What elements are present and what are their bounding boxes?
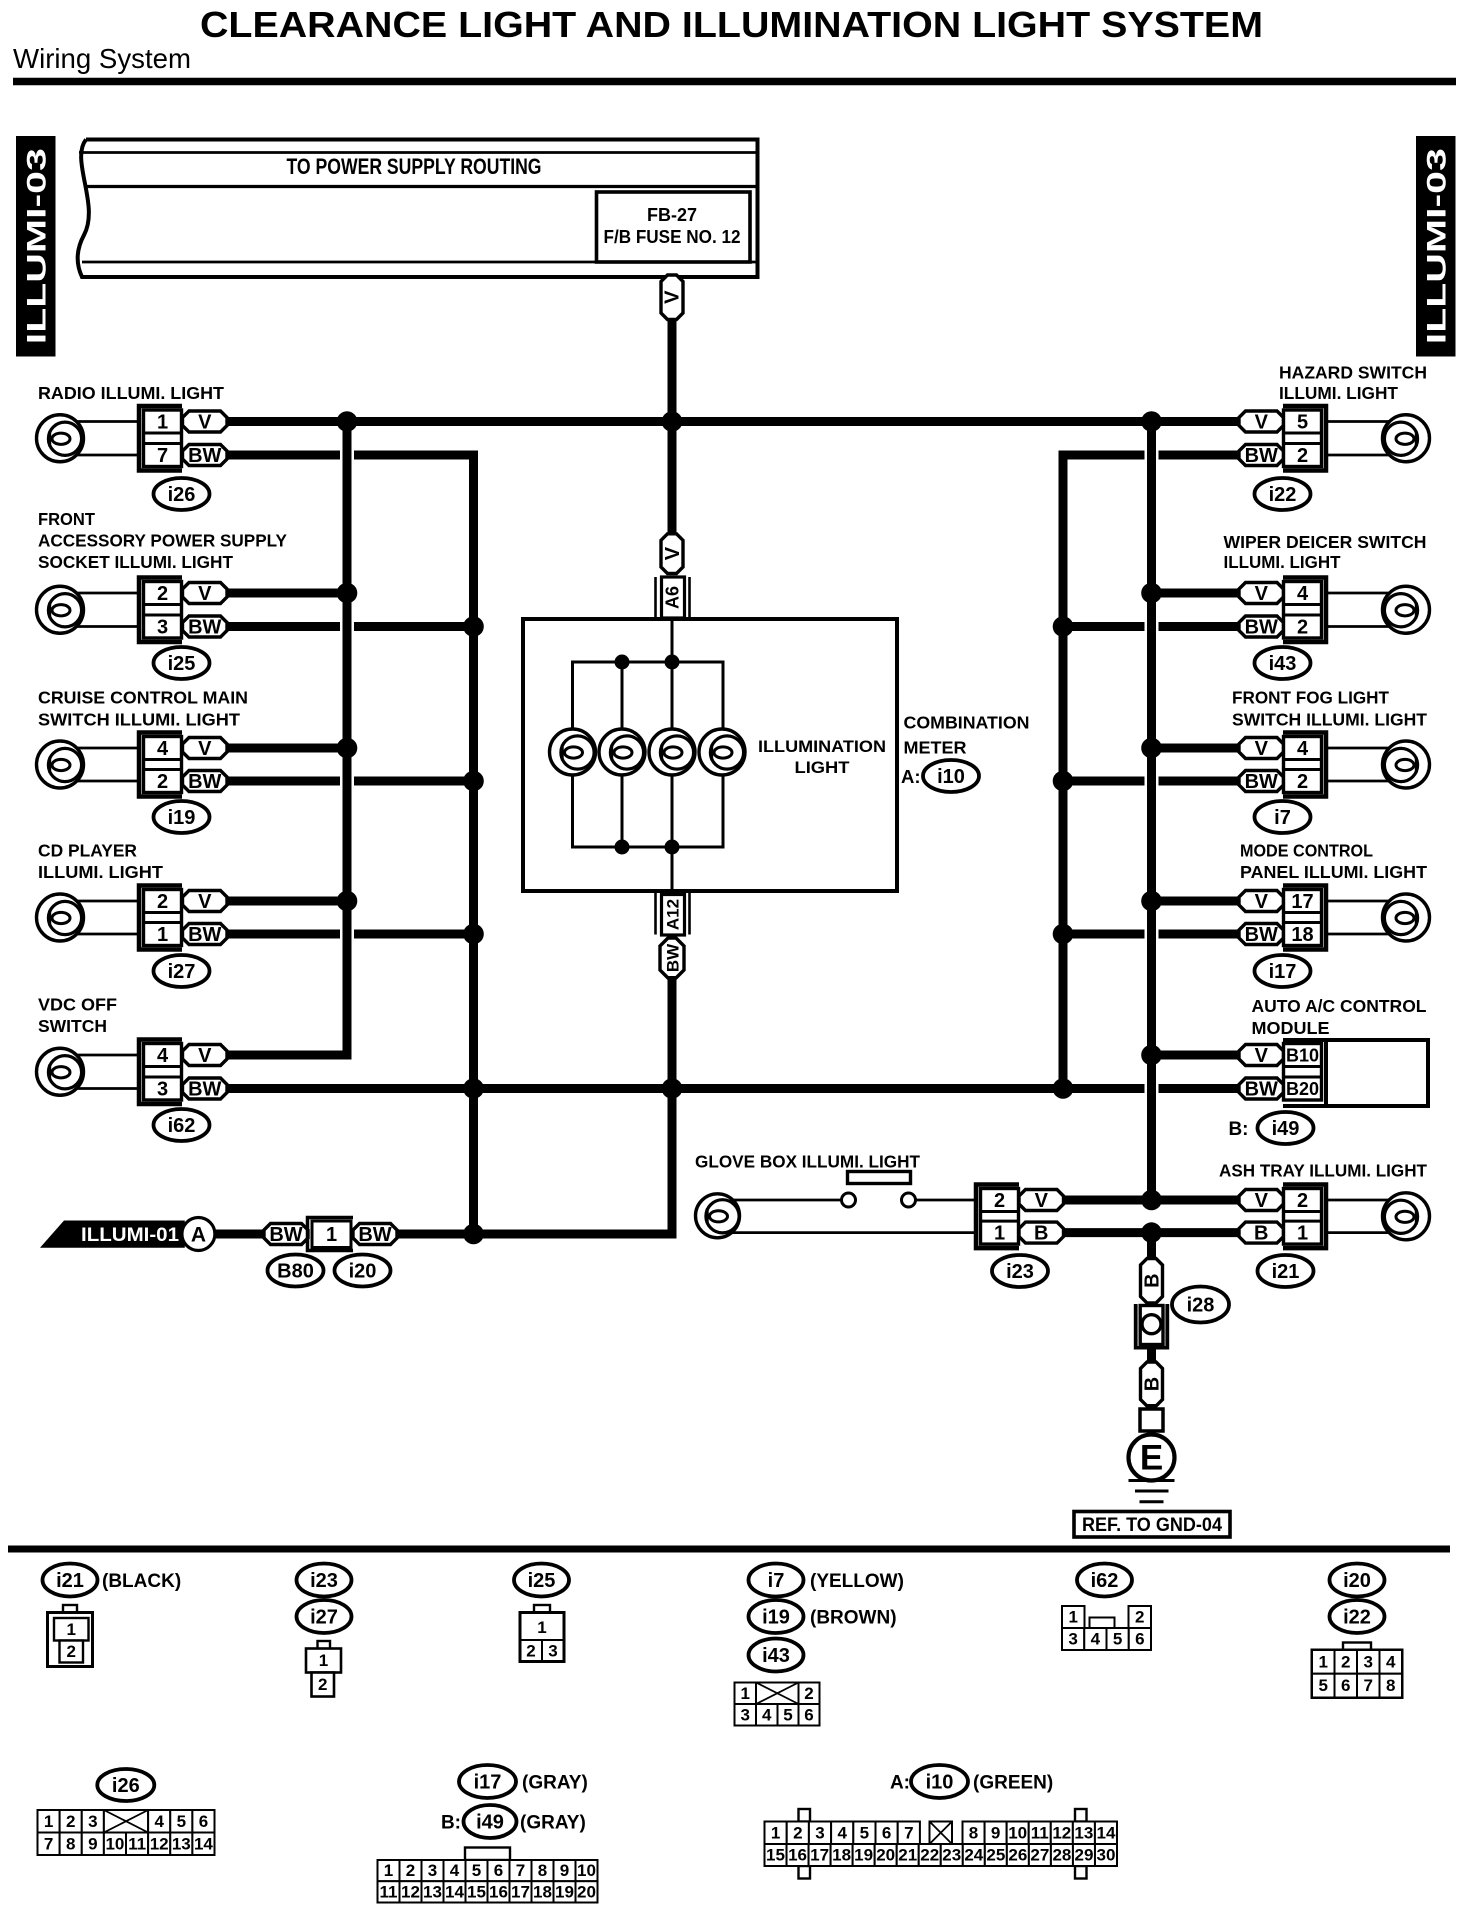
- svg-text:RADIO ILLUMI. LIGHT: RADIO ILLUMI. LIGHT: [38, 383, 224, 403]
- label COMBINATION METER: [904, 713, 1030, 758]
- label (YELLOW): [810, 1571, 904, 1592]
- svg-text:i20: i20: [349, 1261, 377, 1283]
- svg-text:2: 2: [67, 1642, 76, 1661]
- connector designator A: i10 (pinout): [890, 1765, 968, 1798]
- wire: left V bus: [343, 417, 352, 1060]
- illumination bulb 1: [550, 729, 596, 775]
- svg-text:FRONT FOG LIGHT: FRONT FOG LIGHT: [1232, 688, 1389, 708]
- svg-text:8: 8: [969, 1823, 978, 1842]
- wire: vdc V to left V bus corner: [227, 1051, 352, 1060]
- junction dot mode control V / right V bus: [1141, 891, 1162, 912]
- svg-text:13: 13: [172, 1834, 191, 1853]
- power supply routing box: [78, 140, 758, 278]
- svg-text:1: 1: [771, 1823, 780, 1842]
- bulb: cruise control main switch illumi. light: [37, 741, 84, 788]
- connector i49 pinout drawing: [378, 1848, 598, 1903]
- junction dot long BW row / center BW: [662, 1078, 683, 1099]
- svg-text:(YELLOW): (YELLOW): [810, 1571, 904, 1592]
- svg-text:4: 4: [762, 1705, 772, 1724]
- svg-text:10: 10: [105, 1834, 124, 1853]
- wire: bulb to connector i62: [76, 1055, 139, 1089]
- svg-text:8: 8: [538, 1861, 547, 1880]
- svg-text:18: 18: [1291, 924, 1313, 946]
- connector i7 pins 4/2: [1283, 733, 1326, 797]
- wire color B (i21 pin 1): [1239, 1222, 1284, 1245]
- svg-text:5: 5: [1319, 1676, 1328, 1695]
- connector i22 pins 5/2: [1283, 406, 1326, 471]
- illumination bulb 2: [599, 729, 645, 775]
- connector i62 pins 4/3: [139, 1040, 182, 1105]
- wire color V (i23 pin 2): [1019, 1190, 1064, 1213]
- svg-text:V: V: [1255, 412, 1269, 434]
- svg-text:V: V: [198, 1045, 212, 1067]
- connector designator i23: [992, 1255, 1048, 1287]
- wire color BW (i62 pin 3): [183, 1078, 228, 1101]
- wire: wiper deicer BW from right BW bus (break at V bus): [1063, 622, 1239, 631]
- connector designator i20: [335, 1255, 391, 1287]
- bulb: cd player illumi. light: [37, 894, 84, 941]
- wire color BW (i20 side): [353, 1224, 397, 1247]
- svg-text:MODULE: MODULE: [1252, 1018, 1330, 1038]
- svg-text:B: B: [1254, 1223, 1268, 1245]
- label: ASH TRAY ILLUMI. LIGHT: [1219, 1161, 1427, 1181]
- wire: mode control V from right V bus: [1152, 897, 1240, 906]
- connector i19 pins 4/2: [139, 733, 182, 797]
- wire: connector i43 to bulb: [1328, 593, 1391, 627]
- svg-text:A:: A:: [890, 1773, 910, 1794]
- wire: cruise BW to left BW bus (break at V bus): [227, 777, 474, 786]
- connector i26 pins 1/7: [139, 406, 182, 471]
- svg-text:i26: i26: [112, 1775, 140, 1797]
- svg-text:B10: B10: [1286, 1046, 1319, 1066]
- svg-text:11: 11: [1031, 1823, 1049, 1842]
- wire color V (i62 pin 4): [183, 1045, 228, 1068]
- svg-text:ILLUMI. LIGHT: ILLUMI. LIGHT: [1224, 552, 1341, 572]
- connector i17 pins 17/18: [1283, 886, 1326, 950]
- wire: bulb to connector i27: [76, 901, 139, 934]
- wire: cd V to left V bus: [227, 897, 347, 906]
- svg-text:16: 16: [788, 1846, 807, 1865]
- bulb: mode control panel illumi. light: [1383, 894, 1430, 941]
- wire color BW (i7 pin 2): [1239, 771, 1284, 794]
- junction dot accessory BW / left BW bus: [463, 616, 484, 637]
- wire color V (i7 pin 4): [1239, 738, 1284, 761]
- label: AUTO A/C CONTROL MODULE: [1252, 996, 1427, 1038]
- svg-text:V: V: [1255, 1045, 1269, 1067]
- wire color BW (below A12): [660, 938, 684, 978]
- svg-text:V: V: [1035, 1190, 1049, 1212]
- connector i23/i27 pinout drawing: [306, 1641, 341, 1697]
- svg-text:17: 17: [511, 1882, 530, 1901]
- svg-text:18: 18: [533, 1882, 552, 1901]
- svg-text:18: 18: [832, 1846, 851, 1865]
- wire: glove bulb to door switch: [732, 1199, 841, 1202]
- svg-text:8: 8: [1386, 1676, 1395, 1695]
- svg-text:1: 1: [157, 412, 168, 434]
- svg-text:COMBINATION: COMBINATION: [904, 713, 1030, 733]
- connector i25 pins 2/3: [139, 578, 182, 643]
- junction dot accessory V / left V bus: [337, 583, 358, 604]
- svg-text:BW: BW: [269, 1224, 302, 1246]
- svg-text:B: B: [1142, 1377, 1164, 1391]
- wire color BW (i19 pin 2): [183, 771, 228, 794]
- label ILLUMINATION LIGHT: [758, 737, 886, 777]
- svg-text:BW: BW: [188, 924, 221, 946]
- svg-text:4: 4: [837, 1823, 847, 1842]
- title: CLEARANCE LIGHT AND ILLUMINATION LIGHT SYSTEM: [200, 4, 1263, 45]
- svg-text:9: 9: [560, 1861, 569, 1880]
- junction dot ash B row / ground branch: [1141, 1222, 1162, 1243]
- connector designator B: i49: [1228, 1112, 1313, 1144]
- svg-text:4: 4: [157, 738, 169, 760]
- svg-text:10: 10: [1008, 1823, 1027, 1842]
- svg-text:B:: B:: [1228, 1119, 1248, 1140]
- connector i21 pins 2/1: [1283, 1185, 1326, 1249]
- svg-text:2: 2: [804, 1684, 813, 1703]
- svg-text:21: 21: [898, 1846, 917, 1865]
- svg-text:(BROWN): (BROWN): [810, 1608, 897, 1629]
- bulb: hazard switch illumi. light: [1383, 415, 1430, 462]
- page tab ILLUMI-03 (right): [1416, 136, 1456, 357]
- svg-text:29: 29: [1074, 1846, 1093, 1865]
- junction dot ILLUMI-01 row / left BW bus: [463, 1224, 484, 1245]
- wire color BW (i27 pin 1): [183, 924, 228, 947]
- svg-text:14: 14: [194, 1834, 213, 1853]
- svg-text:6: 6: [1341, 1676, 1350, 1695]
- svg-text:PANEL ILLUMI. LIGHT: PANEL ILLUMI. LIGHT: [1240, 862, 1427, 882]
- wire: bulb to connector i19: [76, 748, 139, 781]
- svg-text:16: 16: [489, 1882, 508, 1901]
- svg-text:SWITCH: SWITCH: [38, 1016, 107, 1036]
- svg-text:1: 1: [319, 1651, 328, 1670]
- connector designator i27: [154, 955, 210, 987]
- wire color V (i19 pin 4): [183, 738, 228, 761]
- svg-text:B80: B80: [277, 1261, 314, 1283]
- net flag ILLUMI-01: [40, 1221, 185, 1248]
- svg-text:i25: i25: [528, 1570, 556, 1592]
- svg-text:25: 25: [986, 1846, 1005, 1865]
- svg-text:BW: BW: [1245, 617, 1278, 639]
- svg-text:i19: i19: [762, 1607, 790, 1629]
- svg-text:5: 5: [783, 1705, 792, 1724]
- svg-text:ILLUMI. LIGHT: ILLUMI. LIGHT: [38, 862, 163, 882]
- bulb: vdc off switch: [37, 1048, 84, 1095]
- wire: bulb branch 2: [621, 662, 624, 847]
- wire color V (i49 pin B10): [1239, 1045, 1284, 1068]
- junction dot top V row / right V bus: [1141, 411, 1162, 432]
- label: FRONT FOG LIGHT SWITCH ILLUMI. LIGHT: [1232, 688, 1427, 730]
- connector designator i19: [154, 801, 210, 833]
- svg-text:4: 4: [1297, 583, 1309, 605]
- svg-text:1: 1: [1069, 1608, 1078, 1627]
- svg-text:SWITCH ILLUMI. LIGHT: SWITCH ILLUMI. LIGHT: [38, 710, 240, 730]
- glove box door switch: [842, 1172, 916, 1208]
- svg-text:3: 3: [1068, 1630, 1077, 1649]
- connector i20/i22 pinout drawing: [1312, 1643, 1402, 1698]
- wire color V (i22 pin 5): [1239, 411, 1284, 434]
- svg-text:ACCESSORY POWER SUPPLY: ACCESSORY POWER SUPPLY: [38, 531, 287, 551]
- svg-text:2: 2: [157, 891, 168, 913]
- svg-text:i49: i49: [1272, 1118, 1300, 1140]
- junction dot top V row / center feed: [662, 411, 683, 432]
- svg-text:i49: i49: [476, 1812, 504, 1834]
- svg-text:5: 5: [1297, 412, 1308, 434]
- wire color BW (i43 pin 2): [1239, 616, 1284, 639]
- wire: bulb frame to connector A12: [671, 847, 674, 891]
- bulb: front accessory power supply socket illumi. light: [37, 586, 84, 633]
- connector designator i26: [154, 478, 210, 510]
- svg-text:7: 7: [516, 1861, 525, 1880]
- ground terminal block: [1140, 1409, 1163, 1431]
- svg-text:3: 3: [1364, 1653, 1373, 1672]
- connector i49 pins B10/B20: [1284, 1044, 1322, 1101]
- svg-text:1: 1: [157, 924, 168, 946]
- svg-text:E: E: [1140, 1439, 1163, 1478]
- svg-text:2: 2: [1297, 771, 1308, 793]
- svg-text:27: 27: [1030, 1846, 1049, 1865]
- wire: connector i17 to bulb: [1328, 901, 1391, 934]
- junction dot wiper deicer BW / right BW bus: [1053, 616, 1074, 637]
- auto A/C control module box: [1283, 1040, 1428, 1106]
- connector i28: [1134, 1304, 1169, 1350]
- label: RADIO ILLUMI. LIGHT: [38, 383, 224, 403]
- wire: center V feed down to top V row and to connector A6: [668, 321, 677, 534]
- svg-text:6: 6: [494, 1861, 503, 1880]
- page tab ILLUMI-03 (left): [16, 136, 56, 357]
- svg-text:V: V: [198, 738, 212, 760]
- svg-text:i43: i43: [762, 1645, 790, 1667]
- wire color V (i25 pin 2): [183, 583, 228, 606]
- svg-text:(GREEN): (GREEN): [973, 1773, 1053, 1794]
- svg-text:1: 1: [1319, 1653, 1328, 1672]
- connector designator i26 (pinout): [97, 1769, 154, 1801]
- svg-text:CLEARANCE LIGHT AND ILLUMINATI: CLEARANCE LIGHT AND ILLUMINATION LIGHT S…: [200, 4, 1263, 45]
- svg-text:26: 26: [1008, 1846, 1027, 1865]
- svg-text:SOCKET ILLUMI. LIGHT: SOCKET ILLUMI. LIGHT: [38, 552, 233, 572]
- svg-text:7: 7: [1364, 1676, 1373, 1695]
- svg-text:i21: i21: [1272, 1261, 1300, 1283]
- svg-text:CD PLAYER: CD PLAYER: [38, 841, 137, 861]
- svg-text:FRONT: FRONT: [38, 509, 95, 529]
- svg-text:11: 11: [380, 1882, 398, 1901]
- svg-text:BW: BW: [188, 617, 221, 639]
- svg-text:20: 20: [876, 1846, 895, 1865]
- junction dot ash V row / right V bus: [1141, 1190, 1162, 1211]
- svg-text:BW: BW: [1245, 771, 1278, 793]
- svg-text:5: 5: [177, 1812, 186, 1831]
- svg-text:3: 3: [428, 1861, 437, 1880]
- svg-text:1: 1: [44, 1812, 53, 1831]
- connector designator i22 (pinout): [1330, 1600, 1385, 1633]
- label: CRUISE CONTROL MAIN SWITCH ILLUMI. LIGHT: [38, 688, 248, 730]
- wire: long BW row (vdc BW to auto A/C BW): [227, 1084, 1239, 1093]
- header rule: [13, 78, 1456, 86]
- label: MODE CONTROL PANEL ILLUMI. LIGHT: [1240, 841, 1427, 883]
- wire: i28 to B label: [1147, 1347, 1156, 1364]
- wire: auto A/C V from right V bus: [1152, 1051, 1240, 1060]
- svg-text:1: 1: [741, 1684, 750, 1703]
- svg-text:28: 28: [1052, 1846, 1071, 1865]
- svg-text:2: 2: [1341, 1653, 1350, 1672]
- svg-text:19: 19: [854, 1846, 873, 1865]
- svg-text:11: 11: [128, 1834, 146, 1853]
- svg-text:12: 12: [1052, 1823, 1071, 1842]
- wire: hazard BW to right BW bus corner (break at V bus): [1059, 451, 1240, 460]
- junction dot front fog V / right V bus: [1141, 738, 1162, 759]
- wire: bulb branch 3: [671, 662, 674, 847]
- svg-text:AUTO A/C CONTROL: AUTO A/C CONTROL: [1252, 996, 1427, 1016]
- svg-text:3: 3: [157, 617, 168, 639]
- svg-text:2: 2: [1297, 1190, 1308, 1212]
- node A (ILLUMI-01 continuation): [182, 1218, 215, 1251]
- wire: right V bus: [1147, 417, 1156, 1200]
- inline connector B80/i20 pin 1: [308, 1218, 354, 1251]
- svg-text:ILLUMI-03: ILLUMI-03: [22, 148, 52, 344]
- connector designator i7: [1255, 801, 1311, 833]
- svg-text:12: 12: [401, 1882, 420, 1901]
- wire: accessory BW to left BW bus (break at V bus): [227, 622, 474, 631]
- connector designator i43 (pinout): [749, 1639, 804, 1672]
- svg-text:2: 2: [406, 1861, 415, 1880]
- wire: front fog BW from right BW bus (break at V bus): [1063, 777, 1239, 786]
- connector designator B80: [268, 1255, 324, 1287]
- illumination bulb 3: [649, 729, 695, 775]
- svg-text:7: 7: [157, 445, 168, 467]
- wire: meter feed A6 to bulb frame: [671, 619, 674, 662]
- svg-text:2: 2: [157, 771, 168, 793]
- svg-text:i27: i27: [168, 961, 196, 983]
- connector designator i23 (pinout): [297, 1564, 352, 1597]
- label (GRAY) for i49: [520, 1813, 586, 1834]
- svg-text:WIPER DEICER SWITCH: WIPER DEICER SWITCH: [1224, 532, 1427, 552]
- svg-text:2: 2: [318, 1675, 327, 1694]
- combination meter box: [523, 619, 897, 891]
- svg-text:HAZARD SWITCH: HAZARD SWITCH: [1279, 363, 1427, 383]
- svg-text:7: 7: [44, 1834, 53, 1853]
- wire: cd BW to left BW bus (break at V bus): [227, 930, 474, 939]
- wire: left BW bus: [469, 451, 478, 1235]
- junction dot mode control BW / right BW bus: [1053, 924, 1074, 945]
- svg-text:B: B: [1142, 1273, 1164, 1287]
- svg-text:B20: B20: [1286, 1079, 1319, 1099]
- junction dot wiper deicer V / right V bus: [1141, 583, 1162, 604]
- wire: glove bulb B to connector i23: [731, 1231, 977, 1234]
- wire: ash B row to ground: [1147, 1233, 1156, 1260]
- junction dot cruise BW / left BW bus: [463, 771, 484, 792]
- wire: door switch to connector i23: [916, 1199, 977, 1202]
- svg-text:13: 13: [423, 1882, 442, 1901]
- svg-text:i22: i22: [1343, 1607, 1371, 1629]
- svg-text:VDC OFF: VDC OFF: [38, 995, 117, 1015]
- wire color BW (B80 side): [264, 1224, 308, 1247]
- wire color BW (i17 pin 18): [1239, 924, 1284, 947]
- wire color BW (i26 pin 7): [183, 445, 228, 468]
- svg-text:6: 6: [804, 1705, 813, 1724]
- svg-text:A:: A:: [901, 766, 921, 787]
- svg-text:V: V: [1255, 583, 1269, 605]
- svg-text:ILLUMINATION: ILLUMINATION: [758, 737, 886, 756]
- svg-text:i27: i27: [310, 1607, 338, 1629]
- label: GLOVE BOX ILLUMI. LIGHT: [695, 1152, 920, 1172]
- wire: right BW bus: [1059, 451, 1068, 1089]
- wire color BW (i25 pin 3): [183, 616, 228, 639]
- svg-text:B:: B:: [441, 1813, 461, 1834]
- connector i62 pinout drawing: [1062, 1606, 1151, 1650]
- wire: mode control BW from right BW bus (break at V bus): [1063, 930, 1239, 939]
- wire: radio BW to BW bus (break at V bus): [227, 451, 478, 460]
- ground reference box REF. TO GND-04: [1074, 1512, 1230, 1538]
- svg-text:i23: i23: [1006, 1261, 1034, 1283]
- wire: cruise V to left V bus: [227, 744, 347, 753]
- wire color B (i23 pin 1): [1019, 1222, 1064, 1245]
- svg-text:V: V: [662, 546, 684, 560]
- svg-text:10: 10: [577, 1861, 596, 1880]
- bottom separator rule: [8, 1546, 1450, 1553]
- connector A12 (combination meter): [656, 893, 690, 935]
- svg-text:BW: BW: [188, 445, 221, 467]
- connector i43 pins 4/2: [1283, 578, 1326, 643]
- wire: bulb to connector i26: [76, 422, 139, 456]
- junction dot top V row / left V bus: [337, 411, 358, 432]
- connector designator i62: [154, 1109, 210, 1141]
- wire color V (above connector A6): [661, 534, 684, 574]
- wire color V (i17 pin 17): [1239, 891, 1284, 914]
- svg-text:17: 17: [1291, 891, 1313, 913]
- svg-text:i20: i20: [1343, 1570, 1371, 1592]
- svg-text:7: 7: [904, 1823, 913, 1842]
- svg-text:22: 22: [920, 1846, 939, 1865]
- svg-text:BW: BW: [664, 943, 683, 972]
- wire color B (above i28): [1141, 1259, 1164, 1304]
- svg-text:i7: i7: [1274, 807, 1291, 829]
- svg-text:V: V: [198, 891, 212, 913]
- svg-text:4: 4: [1297, 738, 1309, 760]
- svg-text:REF. TO GND-04: REF. TO GND-04: [1082, 1515, 1222, 1536]
- wire: top V row (radio to hazard): [227, 417, 1239, 426]
- junction dot long BW row / right BW bus: [1053, 1078, 1074, 1099]
- wire color B (below i28): [1141, 1362, 1164, 1406]
- svg-text:V: V: [1255, 891, 1269, 913]
- connector designator i21 (pinout): [43, 1564, 98, 1597]
- svg-text:METER: METER: [904, 738, 967, 758]
- svg-text:23: 23: [942, 1846, 961, 1865]
- svg-text:20: 20: [577, 1882, 596, 1901]
- svg-text:15: 15: [766, 1846, 785, 1865]
- svg-text:F/B FUSE NO. 12: F/B FUSE NO. 12: [604, 227, 741, 247]
- svg-text:LIGHT: LIGHT: [795, 758, 851, 777]
- svg-text:i28: i28: [1187, 1295, 1215, 1317]
- connector designator i25: [154, 647, 210, 679]
- svg-text:BW: BW: [1245, 1079, 1278, 1101]
- connector designator i7 (pinout): [749, 1564, 804, 1597]
- svg-text:SWITCH ILLUMI. LIGHT: SWITCH ILLUMI. LIGHT: [1232, 710, 1427, 730]
- subtitle: Wiring System: [13, 43, 191, 74]
- svg-text:2: 2: [157, 583, 168, 605]
- svg-text:i17: i17: [474, 1772, 502, 1794]
- svg-text:ILLUMI-01: ILLUMI-01: [81, 1225, 179, 1246]
- connector designator i17 (pinout): [459, 1765, 516, 1798]
- wire: connector i22 to bulb: [1328, 422, 1391, 456]
- svg-text:ASH TRAY ILLUMI. LIGHT: ASH TRAY ILLUMI. LIGHT: [1219, 1161, 1427, 1181]
- junction dot front fog BW / right BW bus: [1053, 771, 1074, 792]
- bulb: wiper deicer switch illumi. light: [1383, 586, 1430, 633]
- junction dot cd V / left V bus: [337, 891, 358, 912]
- wire: accessory V to left V bus: [227, 589, 347, 598]
- svg-text:30: 30: [1097, 1846, 1116, 1865]
- svg-text:MODE CONTROL: MODE CONTROL: [1240, 841, 1373, 861]
- label: VDC OFF SWITCH: [38, 995, 117, 1037]
- svg-text:1: 1: [326, 1224, 337, 1246]
